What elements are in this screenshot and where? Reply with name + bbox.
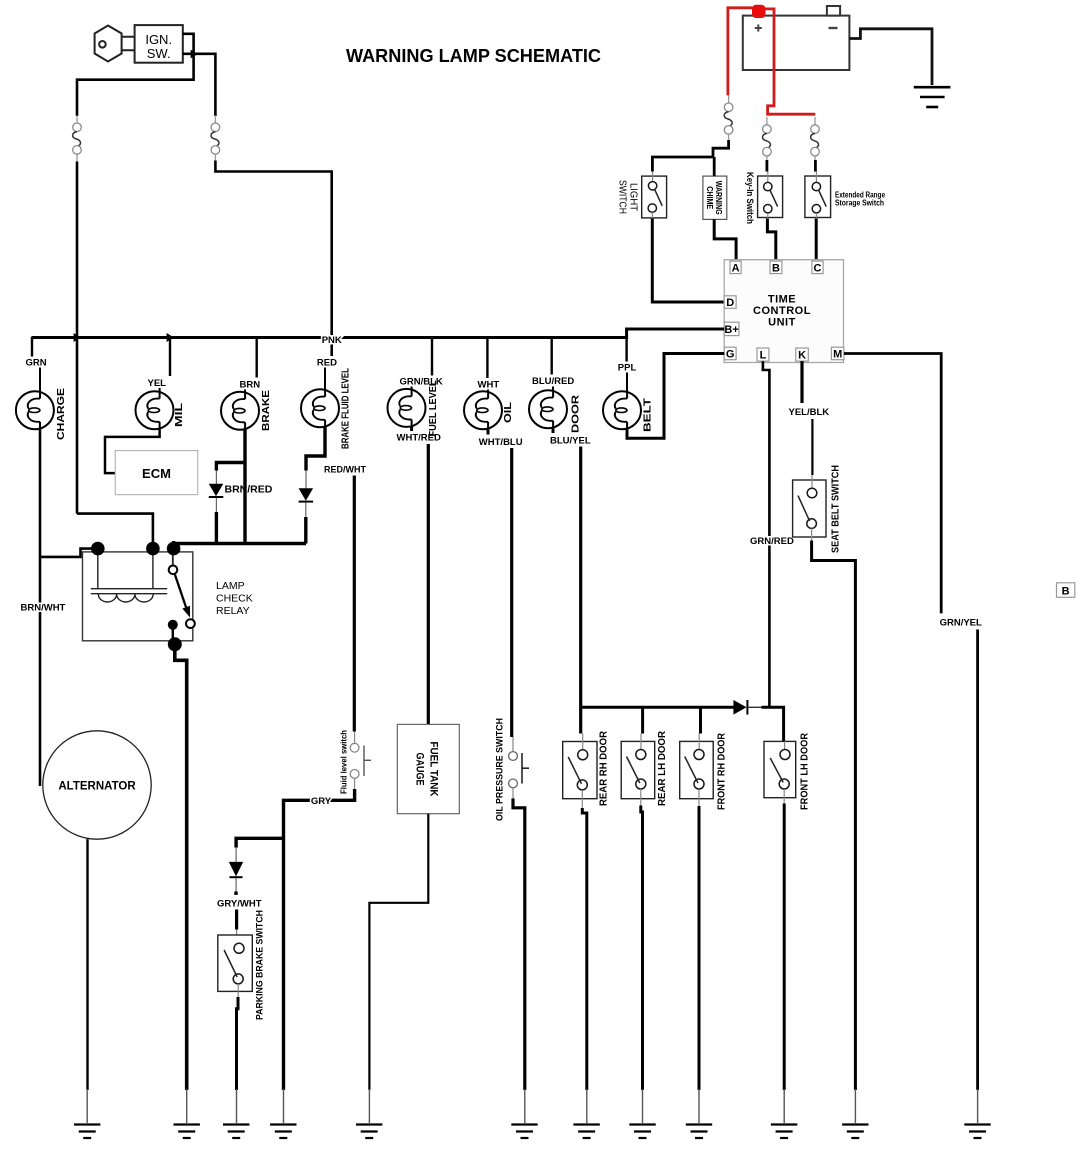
ground 1: [86, 1089, 88, 1123]
diode D2: [299, 488, 314, 517]
wire WHT/RED to fuel tank gauge: [427, 444, 430, 724]
svg-text:CHARGE: CHARGE: [55, 388, 67, 440]
svg-text:SEAT BELT SWITCH: SEAT BELT SWITCH: [831, 465, 842, 553]
svg-text:DOOR: DOOR: [570, 394, 582, 433]
svg-text:WARNING LAMP SCHEMATIC: WARNING LAMP SCHEMATIC: [346, 46, 601, 66]
wire bus feed to relay: [77, 514, 153, 549]
svg-text:ECM: ECM: [142, 466, 171, 481]
lamp OIL: [464, 391, 502, 429]
svg-text:WARNING: WARNING: [714, 181, 723, 215]
svg-text:B: B: [1062, 585, 1070, 597]
svg-text:OIL: OIL: [502, 401, 514, 423]
wire battery negative to ground: [849, 29, 932, 85]
wire relay coil to charge wire: [39, 549, 98, 557]
svg-text:CHECK: CHECK: [216, 593, 253, 605]
wire light switch to pin D: [651, 212, 653, 219]
node dot2: [146, 542, 160, 556]
wire tap YEL: [169, 339, 171, 376]
wire RED/WHT to fluid level switch: [353, 476, 356, 732]
wire chime top tap: [713, 157, 716, 176]
svg-text:GRN/RED: GRN/RED: [750, 536, 794, 547]
warning chime: [703, 176, 727, 219]
node dot3: [167, 542, 181, 556]
fuse F3: [724, 95, 733, 142]
wire oil switch to ground: [512, 788, 514, 799]
wire rear LH door to ground: [640, 789, 642, 806]
wire red from + to fuse F3: [728, 8, 753, 96]
svg-text:B+: B+: [724, 324, 738, 336]
svg-text:LAMP: LAMP: [216, 580, 245, 592]
fuse F2: [211, 115, 220, 162]
svg-text:GAUGE: GAUGE: [414, 753, 426, 786]
front RH door switch: [680, 707, 728, 810]
svg-text:BELT: BELT: [642, 397, 654, 432]
svg-text:Storage Switch: Storage Switch: [835, 199, 884, 208]
svg-text:GRN/YEL: GRN/YEL: [940, 618, 982, 629]
wire charge lamp down to alternator: [39, 429, 42, 786]
svg-text:FRONT LH DOOR: FRONT LH DOOR: [800, 732, 811, 810]
wire branch to diode BRN/RED: [216, 463, 246, 471]
lamp FUEL LEVEL: [388, 389, 426, 427]
wire brake fluid lamp to diode: [306, 427, 325, 470]
wire tap BLU/RED: [551, 339, 553, 375]
node dot1: [91, 542, 105, 556]
key symbol: [95, 26, 135, 62]
wire brake lamp to check bus: [243, 430, 246, 544]
wire front RH door to ground: [698, 789, 700, 807]
wire fuse 3 to light switch and chime: [652, 140, 728, 172]
svg-text:WHT/BLU: WHT/BLU: [479, 437, 523, 448]
svg-text:BRAKE FLUID LEVEL: BRAKE FLUID LEVEL: [340, 368, 352, 449]
svg-text:IGN.: IGN.: [145, 32, 172, 47]
svg-text:RED/WHT: RED/WHT: [324, 465, 366, 475]
ground 5: [368, 1089, 370, 1123]
pin K: [796, 348, 809, 362]
wire storage switch to pin C: [815, 213, 817, 219]
svg-text:OIL PRESSURE SWITCH: OIL PRESSURE SWITCH: [495, 718, 506, 821]
ground 4: [283, 1089, 285, 1123]
ground 7: [586, 1089, 588, 1123]
wire GRY/WHT stub: [235, 910, 238, 930]
ground 9: [698, 1089, 700, 1123]
ground 12: [977, 1089, 979, 1123]
wire front LH door to ground: [783, 789, 785, 804]
svg-text:SW.: SW.: [147, 46, 171, 61]
wire IGN SW output 2 (to fuse 2): [183, 54, 216, 116]
battery + terminal junction (red): [752, 5, 766, 18]
fuse F5: [811, 117, 820, 164]
rear LH door switch: [621, 707, 668, 806]
ECM: [115, 451, 198, 495]
light switch: [617, 172, 667, 218]
pin A: [730, 261, 741, 274]
svg-text:PPL: PPL: [618, 363, 637, 374]
wire door lamp stub: [552, 428, 555, 433]
fuse F1: [73, 115, 82, 162]
wire pin L to door diode node (GRN/RED): [763, 361, 770, 707]
svg-text:GRY: GRY: [311, 796, 332, 807]
alternator: [43, 731, 151, 839]
svg-text:FUEL TANK: FUEL TANK: [428, 742, 440, 797]
svg-text:UNIT: UNIT: [768, 317, 796, 329]
pin B: [770, 261, 782, 274]
wire chime to pin A: [714, 219, 736, 261]
lamp check relay: [83, 551, 195, 644]
svg-text:M: M: [833, 348, 842, 360]
svg-text:WHT/RED: WHT/RED: [397, 433, 441, 444]
diode D3 parking brake: [229, 862, 243, 895]
svg-text:RELAY: RELAY: [216, 605, 250, 617]
ground 11: [854, 1089, 856, 1123]
svg-text:L: L: [760, 350, 767, 362]
rear RH door switch: [563, 730, 610, 806]
svg-text:MIL: MIL: [173, 402, 185, 427]
wire main bus PNK: [32, 336, 627, 339]
wire tap GRN: [31, 337, 33, 357]
svg-text:D: D: [726, 297, 734, 309]
svg-text:GRN: GRN: [26, 358, 47, 369]
time control unit U1: [724, 260, 843, 363]
wire fuse 4 to key-in switch: [766, 160, 769, 172]
front LH door switch: [764, 732, 811, 810]
svg-text:BRN/WHT: BRN/WHT: [21, 603, 66, 614]
wire tap WHT: [486, 339, 488, 378]
ground 6: [524, 1089, 526, 1123]
svg-text:SWITCH: SWITCH: [617, 180, 629, 214]
wire alternator to ground: [86, 839, 88, 1090]
lamp BRAKE FLUID LEVEL: [301, 389, 339, 427]
lamp CHARGE: [16, 391, 54, 429]
wire relay to check bus: [172, 541, 175, 549]
wire tap GRN/BLK: [431, 339, 433, 376]
wire fuel lamp stub: [410, 427, 413, 431]
svg-text:BRN/RED: BRN/RED: [225, 484, 273, 496]
pin M: [831, 347, 844, 360]
wire tap PPL: [625, 329, 627, 362]
wire tap BRN: [256, 339, 258, 378]
wire gauge to ground: [369, 814, 428, 1090]
wire oil lamp stub: [487, 429, 490, 434]
wire seat belt switch to ground: [811, 528, 813, 541]
fluid level switch: [340, 730, 372, 794]
svg-text:YEL/BLK: YEL/BLK: [789, 407, 830, 418]
svg-text:BLU/RED: BLU/RED: [532, 376, 574, 387]
pin L: [757, 348, 769, 362]
extended range storage switch: [805, 172, 886, 218]
pin G: [724, 347, 736, 360]
battery: [743, 6, 850, 70]
ground 2: [186, 1089, 188, 1123]
svg-text:Fluid level switch: Fluid level switch: [340, 730, 349, 794]
svg-text:PARKING BRAKE SWITCH: PARKING BRAKE SWITCH: [255, 910, 266, 1020]
arrow junction at IGN SW: [191, 50, 198, 59]
svg-text:FUEL LEVEL: FUEL LEVEL: [427, 380, 439, 437]
wire fluid switch to GRY run: [354, 778, 356, 789]
lamp BELT: [603, 391, 641, 429]
svg-text:REAR LH DOOR: REAR LH DOOR: [657, 730, 668, 806]
svg-text:RED: RED: [317, 358, 337, 369]
svg-text:CONTROL: CONTROL: [753, 305, 811, 317]
svg-text:TIME: TIME: [768, 294, 796, 306]
node dot4: [168, 637, 182, 651]
svg-text:BRN: BRN: [240, 380, 261, 391]
svg-text:CHIME: CHIME: [705, 186, 714, 209]
svg-text:C: C: [814, 262, 822, 274]
wire key-in to pin B: [767, 213, 769, 219]
ground 3: [236, 1089, 238, 1123]
wire parking brake switch to ground: [237, 984, 239, 998]
ignition switch IGN. SW.: [135, 25, 183, 63]
svg-text:BRAKE: BRAKE: [260, 390, 272, 431]
parking brake switch: [218, 910, 266, 1020]
pin C: [812, 261, 823, 274]
wire lamp check bus: [174, 542, 306, 545]
wire fuse 5 to storage switch: [814, 160, 817, 172]
svg-text:FRONT RH DOOR: FRONT RH DOOR: [716, 732, 727, 810]
wire fuse 2 down to bus corner: [215, 161, 331, 357]
wire bus to B+: [627, 329, 725, 339]
svg-text:ALTERNATOR: ALTERNATOR: [58, 781, 136, 793]
lamp BRAKE: [221, 392, 259, 430]
svg-text:REAR RH DOOR: REAR RH DOOR: [599, 730, 610, 806]
pin D: [724, 296, 736, 309]
wire BLU/YEL to rear RH door switch: [579, 447, 582, 734]
wire WHT/BLU to oil pressure switch: [510, 448, 513, 737]
wire fuse 1 to bus: [76, 162, 79, 514]
key-in switch: [744, 172, 783, 225]
svg-text:BLU/YEL: BLU/YEL: [550, 436, 591, 447]
wire relay output to ground: [175, 646, 187, 1090]
pin B+: [724, 322, 739, 336]
wire rear RH door to ground: [581, 790, 583, 809]
wire pin K to seat belt switch (YEL/BLK): [800, 361, 803, 403]
svg-text:WHT: WHT: [478, 380, 500, 391]
svg-text:K: K: [798, 350, 806, 362]
fuse F4: [763, 117, 772, 164]
ground 10: [783, 1089, 785, 1123]
connector B: [1057, 583, 1075, 598]
wire red from + to fuses F4 F5: [765, 9, 815, 114]
svg-text:A: A: [732, 262, 740, 274]
wire MIL lamp to ECM: [105, 429, 160, 473]
wire pin M to right side (GRN/YEL): [844, 354, 941, 614]
lamp DOOR: [529, 390, 567, 428]
wire door switch bus: [581, 706, 734, 709]
svg-text:Key-In Switch: Key-In Switch: [744, 172, 755, 224]
svg-text:G: G: [726, 348, 735, 360]
ground battery: [914, 87, 951, 107]
lamp MIL: [136, 391, 174, 429]
arrow junction on bus: [167, 333, 174, 342]
oil pressure switch: [495, 718, 530, 821]
ground 8: [642, 1089, 644, 1123]
wire IGN SW output 1 (to fuse 1): [77, 34, 194, 116]
svg-text:YEL: YEL: [148, 378, 167, 389]
svg-text:B: B: [772, 262, 780, 274]
arrow junction on bus at fuse 1 wire: [74, 333, 81, 342]
diode D1 BRN/RED: [209, 484, 224, 513]
wire pin G to belt lamp: [627, 354, 725, 439]
seat belt switch: [793, 465, 842, 553]
wire belt lamp to G corner: [626, 429, 629, 439]
diode D4 door: [733, 700, 762, 715]
wire GRY branch to parking brake chain: [236, 838, 283, 847]
svg-text:PNK: PNK: [322, 335, 342, 346]
wire diode to front LH door: [762, 707, 784, 741]
svg-text:GRY/WHT: GRY/WHT: [217, 899, 262, 910]
fuel tank gauge: [397, 724, 459, 813]
